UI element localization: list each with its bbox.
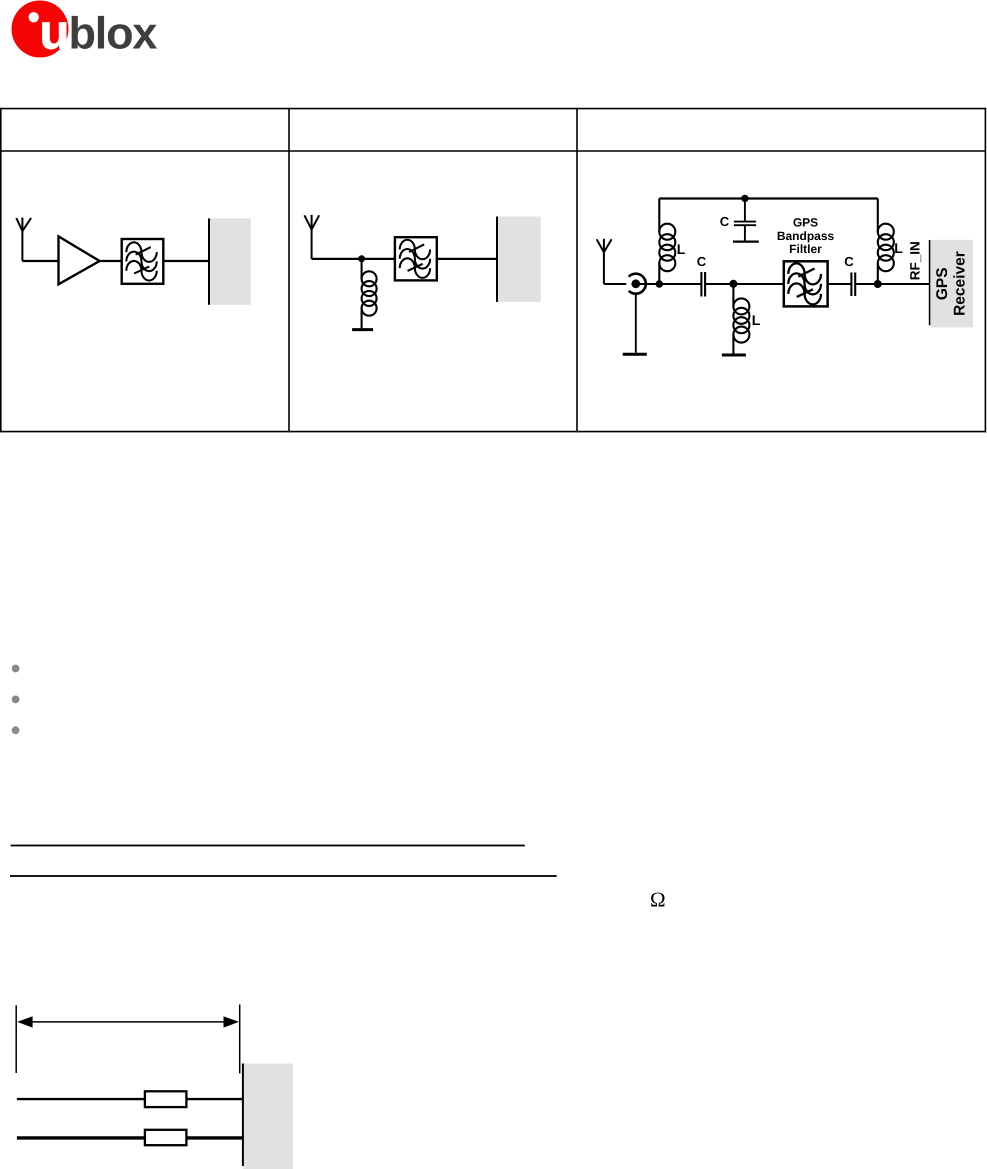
u-blox logo white dot (29, 12, 39, 22)
capacitor C1 (series) (701, 272, 705, 297)
wire filter to receiver block (437, 258, 497, 260)
antenna ANT1 (16, 218, 31, 262)
inductor L1 (left, to top rail) (659, 199, 675, 285)
bandpass filter box F2 (395, 237, 437, 280)
ground (722, 354, 746, 357)
resistor R1 (145, 1091, 187, 1107)
ground (352, 328, 373, 331)
node at right inductor (874, 280, 882, 288)
label GPS Receiver (934, 251, 968, 316)
resistor R2 (145, 1130, 187, 1145)
u-blox logo red circle (12, 1, 69, 58)
svg-text:Bandpass: Bandpass (777, 229, 835, 243)
capacitor C2 (series) (851, 273, 855, 297)
wire trace 1 (17, 1098, 243, 1100)
GPS receiver block (930, 240, 973, 328)
capacitor C (top, shunt) (734, 198, 756, 241)
RF connector J1 (629, 274, 646, 353)
inductor L2 (shunt) (733, 284, 749, 354)
svg-text:L: L (677, 241, 686, 257)
svg-text:L: L (752, 312, 761, 328)
svg-text:Filtler: Filtler (789, 242, 822, 256)
wire antenna to filter (312, 258, 395, 260)
wire cap to receiver (855, 283, 929, 285)
GPS bandpass filter box F3 (784, 261, 828, 306)
wire trace 2 (17, 1136, 243, 1139)
GPS receiver block edge (929, 240, 931, 325)
wire filter to receiver block (163, 260, 209, 262)
dimension tick right (239, 1005, 241, 1074)
module block (244, 1064, 294, 1169)
svg-text:RF_IN: RF_IN (907, 241, 922, 280)
antenna ANT2 (304, 215, 319, 259)
junction node (358, 255, 365, 262)
svg-text:u: u (40, 5, 70, 59)
wire antenna to connector (604, 283, 626, 285)
table outer and grid lines (0, 108, 986, 433)
node at shunt inductor (729, 280, 737, 288)
receiver block edge (496, 217, 498, 302)
svg-text:C: C (844, 254, 854, 269)
bullet 3 (12, 726, 20, 734)
ground (623, 353, 647, 356)
wire amplifier to filter (100, 260, 122, 262)
antenna ANT3 (597, 239, 612, 284)
svg-text:Receiver: Receiver (951, 251, 968, 316)
link underline 1 (11, 845, 525, 847)
svg-text:GPS: GPS (793, 215, 818, 229)
bullet 2 (12, 696, 20, 704)
wire connector to series cap (636, 283, 702, 285)
link underline 2 (10, 875, 557, 877)
svg-text:GPS: GPS (934, 267, 951, 300)
wire filter to cap C2 (828, 283, 852, 285)
inductor L3 (right, to top rail) (878, 199, 894, 285)
wire antenna to amplifier (22, 260, 58, 262)
node on top rail (741, 195, 748, 202)
module block edge (242, 1064, 244, 1167)
svg-text:blox: blox (69, 7, 158, 58)
dimension arrow (17, 1016, 239, 1027)
top rail wire (659, 197, 878, 199)
top cap end bar (733, 241, 759, 243)
svg-text:Ω: Ω (650, 887, 666, 911)
node after connector (656, 280, 663, 287)
label GPS Bandpass Filtler (777, 215, 835, 256)
receiver block (210, 218, 251, 304)
amplifier (LNA) (59, 236, 100, 284)
receiver block (498, 217, 541, 302)
bullet 1 (12, 665, 20, 673)
wire cap to filter (705, 283, 784, 285)
dimension tick left (15, 1005, 17, 1073)
svg-text:L: L (894, 240, 903, 256)
bandpass filter box F1 (122, 239, 164, 284)
svg-text:C: C (720, 214, 730, 229)
inductor L (shunt) (362, 259, 377, 328)
receiver block edge (208, 218, 210, 304)
svg-text:C: C (697, 254, 707, 269)
